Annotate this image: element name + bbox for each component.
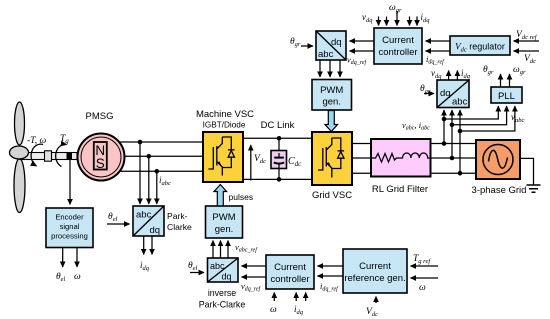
- label RL Grid Filter: [372, 184, 428, 195]
- label Vdc_ref: [516, 30, 538, 41]
- svg-text:Current: Current: [274, 262, 306, 273]
- PMSG generator circle: [78, 134, 125, 181]
- wire vdq out up: [448, 71, 450, 81]
- svg-text:S: S: [96, 156, 105, 171]
- IGBT symbol machine VSC: [209, 137, 235, 176]
- wire cc in wgr: [396, 11, 398, 26]
- label DC Link: [261, 120, 295, 131]
- svg-text:gen.: gen.: [215, 224, 234, 235]
- label vabc PLL: [511, 112, 525, 124]
- label Vdc measure: [254, 154, 266, 165]
- node DC plus: [277, 136, 282, 141]
- wire theta_gr into top dq/abc: [301, 45, 313, 47]
- wire branch a to PLL: [444, 106, 498, 119]
- wire iabc tap b down: [148, 156, 150, 204]
- svg-text:Machine VSC: Machine VSC: [196, 109, 254, 120]
- wire parkclarke out q: [151, 236, 153, 255]
- converter Machine VSC: [203, 132, 243, 182]
- label omega_gr PLL out: [513, 65, 526, 76]
- wire cc to dqabc d: [350, 40, 375, 42]
- wire refgen to cc2 d: [318, 265, 344, 267]
- svg-text:abc: abc: [136, 210, 152, 221]
- wire iabc tap a down: [139, 142, 141, 204]
- svg-text:controller: controller: [270, 274, 309, 285]
- svg-text:ω: ω: [270, 305, 277, 315]
- label idq cc2: [294, 304, 304, 316]
- node DC minus: [277, 177, 282, 182]
- wire invpc to pwm 1: [212, 241, 214, 259]
- svg-text:Park-: Park-: [167, 211, 188, 221]
- wire cc2 in id: [295, 293, 297, 302]
- svg-text:controller: controller: [378, 47, 417, 58]
- wire theta_el into parkclarke: [107, 223, 130, 225]
- wire phase a machine: [120, 141, 204, 143]
- shaft coupling: [45, 151, 52, 161]
- pulse arrow into Machine VSC: [214, 185, 227, 206]
- wire tap a up to dq/abc: [443, 110, 445, 144]
- wire PLL out omega: [509, 74, 511, 87]
- wire invpc to pwm 3: [227, 241, 229, 259]
- svg-text:Clarke: Clarke: [167, 222, 192, 232]
- label omega_gr cc top: [389, 3, 402, 14]
- svg-text:RL Grid Filter: RL Grid Filter: [372, 184, 428, 195]
- label theta_gr dq/abc measure: [420, 84, 431, 95]
- wire tap c up to dq/abc: [459, 110, 461, 173]
- svg-text:pulses: pulses: [229, 192, 254, 202]
- capacitor Cdc: [271, 138, 287, 179]
- svg-text:processing: processing: [51, 232, 88, 241]
- turbine blade top: [15, 102, 25, 145]
- node branch b: [450, 123, 455, 128]
- label theta_el encoder out: [56, 272, 66, 283]
- wire invpc to pwm 2: [220, 241, 222, 259]
- label 3-phase Grid: [472, 185, 527, 196]
- node phase b tap: [147, 154, 152, 159]
- label PMSG: [86, 111, 114, 122]
- wire phase c machine: [120, 170, 204, 172]
- svg-text:PLL: PLL: [498, 91, 515, 102]
- svg-text:ω: ω: [74, 272, 81, 282]
- wire dqabc to pwm 3: [339, 60, 341, 77]
- block Current reference gen: [343, 249, 407, 293]
- wire cc2 in omega: [273, 293, 275, 302]
- svg-text:3-phase Grid: 3-phase Grid: [472, 185, 527, 196]
- svg-text:Encoder: Encoder: [55, 213, 84, 222]
- label vdq_ref top: [347, 55, 368, 67]
- block PWM gen machine: [206, 206, 243, 238]
- filter RL Grid Filter: [371, 139, 431, 177]
- shaft: [20, 153, 77, 160]
- wire cc2 to invpc d: [242, 265, 267, 267]
- wire cc in vd: [378, 17, 380, 26]
- label idq parkclarke out: [140, 260, 150, 272]
- encoder sensor on shaft: [67, 153, 73, 160]
- svg-text:signal: signal: [60, 222, 80, 231]
- wire grid phase c: [352, 172, 476, 174]
- label Park-Clarke: [167, 211, 192, 232]
- node grid tap a: [442, 141, 447, 146]
- svg-text:dq: dq: [222, 272, 232, 282]
- label IGBT/Diode: [203, 121, 246, 130]
- svg-text:gen.: gen.: [322, 97, 341, 108]
- wire DC bus minus: [243, 178, 312, 180]
- wire encoder out theta: [62, 248, 64, 268]
- pulse arrow into Grid VSC: [325, 111, 338, 132]
- node phase a tap: [138, 140, 143, 145]
- wire theta_gr into dq/abc measure: [424, 93, 434, 95]
- block PLL: [491, 87, 522, 103]
- wire Vdc_ref in: [514, 40, 540, 42]
- wire Tg_ref in: [411, 265, 439, 267]
- wire cc2 to invpc q: [242, 276, 267, 278]
- svg-text:DC Link: DC Link: [261, 120, 295, 131]
- wire Vdc in: [514, 50, 540, 52]
- label theta_el parkclarke: [108, 212, 118, 223]
- wire cc to dqabc q: [350, 50, 375, 52]
- wire encoder tap down: [69, 160, 71, 205]
- svg-text:abc: abc: [210, 261, 225, 271]
- wire dqabc to pwm 2: [329, 60, 331, 77]
- wire dqabc to pwm 1: [319, 60, 321, 77]
- wire branch b to PLL: [452, 106, 507, 125]
- svg-text:Grid VSC: Grid VSC: [312, 190, 352, 201]
- wire cc2 in iq: [305, 293, 307, 302]
- wire Vdc measure arrow: [250, 145, 252, 181]
- wire parkclarke out d: [143, 236, 145, 255]
- turbine blade bottom: [14, 159, 25, 213]
- IGBT symbol grid VSC: [318, 138, 344, 178]
- wire tap b up to dq/abc: [451, 110, 453, 158]
- label omega cc2: [270, 305, 277, 315]
- label omega encoder out: [74, 272, 81, 282]
- svg-text:IGBT/Diode: IGBT/Diode: [203, 121, 246, 130]
- wire reg to cc 2: [426, 50, 451, 52]
- node branch c: [458, 129, 463, 134]
- node phase c tap: [155, 169, 160, 174]
- wire branch c to PLL: [460, 106, 515, 131]
- svg-text:dq: dq: [150, 225, 161, 236]
- label Tg_ref: [413, 254, 431, 265]
- label Vdc right: [524, 54, 536, 65]
- node branch a: [442, 117, 447, 122]
- svg-text:Current: Current: [382, 35, 414, 46]
- svg-text:dq: dq: [440, 88, 451, 99]
- svg-text:ω: ω: [419, 283, 426, 293]
- ground: [527, 185, 541, 192]
- block PWM gen grid: [312, 80, 352, 111]
- wire Vdc refgen in: [375, 297, 377, 304]
- source 3-phase Grid: [476, 140, 520, 179]
- label theta_el invpc: [188, 261, 198, 272]
- block Encoder signal processing: [46, 208, 93, 248]
- label theta_gr top: [290, 37, 301, 48]
- node grid tap b: [450, 156, 455, 161]
- svg-text:Park-Clarke: Park-Clarke: [199, 300, 246, 310]
- label idq_ref bottom: [320, 281, 339, 293]
- block dq/abc grid control: [316, 31, 346, 60]
- label -T, omega: [27, 136, 46, 146]
- svg-text:dq: dq: [331, 37, 342, 48]
- wire cc in vq: [386, 17, 388, 26]
- wire omega refgen in: [411, 277, 439, 279]
- block Vdc regulator: [450, 36, 510, 55]
- svg-text:Current: Current: [359, 261, 391, 272]
- wire iabc tap c down: [156, 171, 158, 204]
- label idq cc top: [421, 12, 431, 24]
- block inverse Park-Clarke: [208, 258, 239, 282]
- label Vdc refgen: [366, 307, 378, 318]
- wire cc in iq: [416, 17, 418, 26]
- label vabc iabc grid: [402, 120, 430, 132]
- label inverse Park-Clarke: [199, 288, 246, 310]
- node grid tap c: [458, 171, 463, 176]
- svg-text:PMSG: PMSG: [86, 111, 114, 122]
- label vdq cc top: [362, 12, 373, 24]
- label omega refgen: [419, 283, 426, 293]
- wire idq out up: [456, 71, 458, 81]
- svg-text:PWM: PWM: [320, 85, 343, 96]
- hub: [10, 146, 29, 159]
- block Current controller machine: [266, 255, 314, 289]
- label idq_ref top: [426, 54, 445, 66]
- label vdq_ref bottom: [241, 281, 262, 293]
- block Current controller grid: [374, 28, 422, 64]
- wire grid to ground: [520, 158, 534, 184]
- wire refgen to cc2 q: [318, 275, 344, 277]
- label vdq measure out: [431, 68, 442, 80]
- svg-text:inverse: inverse: [208, 288, 236, 298]
- svg-text:abc: abc: [452, 97, 468, 108]
- wire encoder out omega: [76, 248, 78, 268]
- wire DC bus plus: [243, 137, 312, 139]
- block dq/abc grid measure: [437, 80, 469, 108]
- label Machine VSC: [196, 109, 254, 120]
- label Grid VSC: [312, 190, 352, 201]
- PMSG magnet N-S: [94, 142, 107, 171]
- curved arrow rotation left: [31, 144, 43, 166]
- label Cdc: [288, 156, 302, 168]
- label Tg: [60, 134, 69, 145]
- svg-text:abc: abc: [318, 49, 334, 60]
- wire grid phase b: [352, 157, 476, 159]
- wire cc in id: [409, 17, 411, 26]
- label idq measure out: [461, 68, 471, 80]
- wire theta_el into invpc: [190, 272, 204, 274]
- label theta_gr PLL out: [483, 65, 494, 76]
- wire PLL out theta: [500, 74, 502, 87]
- block Park-Clarke abc/dq: [133, 206, 164, 236]
- label Vabc_ref: [235, 242, 258, 254]
- wire reg to cc 1: [426, 40, 451, 42]
- svg-text:reference gen.: reference gen.: [344, 273, 405, 284]
- label pulses: [229, 192, 254, 202]
- curved arrow rotation right (Tg): [56, 144, 67, 166]
- wire phase b machine: [125, 155, 204, 157]
- label iabc machine: [159, 175, 171, 187]
- svg-text:PWM: PWM: [212, 212, 235, 223]
- wire grid phase a: [352, 143, 476, 145]
- converter Grid VSC: [312, 132, 352, 185]
